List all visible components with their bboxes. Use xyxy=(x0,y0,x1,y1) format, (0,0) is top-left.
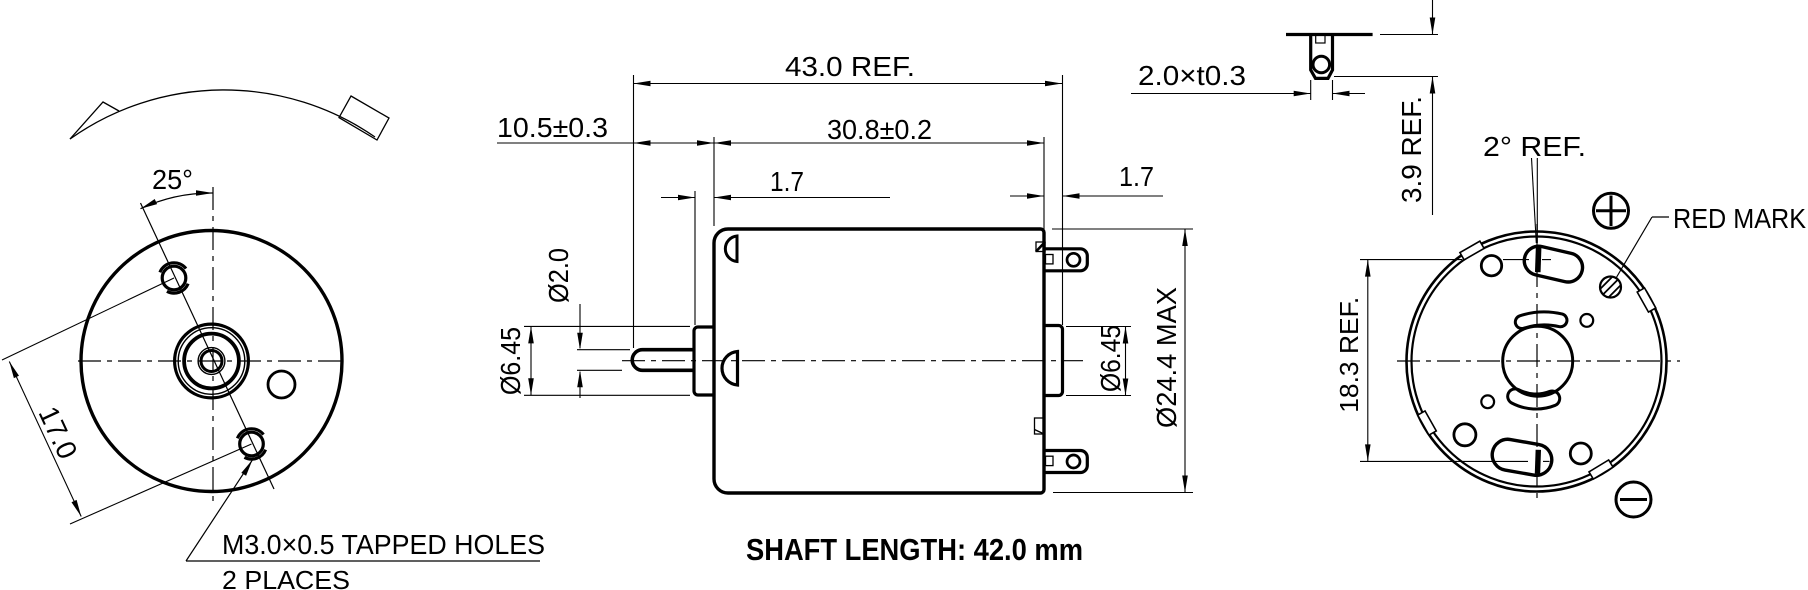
middle view: upper terminal side profile xyxy=(1044,249,1088,271)
right view: lower terminal bar xyxy=(1535,450,1541,474)
right view: red mark hatched circle xyxy=(1600,277,1621,298)
dim dia6.45 right arrows xyxy=(1123,327,1129,344)
dim dia2.0 dimension line xyxy=(579,304,581,348)
left view: 25deg dim arrow right xyxy=(196,190,213,196)
left view: M3 tapped hole (lower) xyxy=(240,432,264,456)
dim dia6.45 left arrows xyxy=(528,326,534,343)
svg-text:Ø6.45: Ø6.45 xyxy=(495,327,526,395)
detail view: end cap surface line xyxy=(1286,33,1373,36)
left view: 17.0 extension line lower xyxy=(70,444,252,524)
svg-text:SHAFT LENGTH: 42.0 mm: SHAFT LENGTH: 42.0 mm xyxy=(746,532,1083,567)
middle view: shaft xyxy=(632,350,694,371)
svg-text:43.0 REF.: 43.0 REF. xyxy=(785,51,915,82)
right view: rim tab right xyxy=(1637,288,1656,312)
right view: small hole e xyxy=(1570,443,1591,464)
svg-text:Ø2.0: Ø2.0 xyxy=(543,248,574,303)
svg-text:1.7: 1.7 xyxy=(1119,161,1154,192)
right view: small hole b xyxy=(1580,314,1593,327)
left view: small plain hole xyxy=(268,371,295,398)
dim 30.8 arrows xyxy=(714,140,731,146)
dim 43.0 REF extension line right xyxy=(1062,75,1064,325)
middle view: motor body outline xyxy=(714,229,1044,493)
left view: hub boss thick circle xyxy=(184,334,239,389)
left view: 17.0 dimension line xyxy=(9,362,81,517)
middle view: upper crimp tab on right edge xyxy=(1036,242,1045,252)
right view: upper vent slot xyxy=(1515,312,1567,329)
svg-text:2.0×t0.3: 2.0×t0.3 xyxy=(1138,60,1246,91)
dim 3.9 REF extension lines xyxy=(1380,34,1438,36)
right view: horizontal centerline xyxy=(1397,360,1680,362)
svg-text:RED MARK: RED MARK xyxy=(1673,203,1806,234)
dim 1.7 left extension line xyxy=(694,191,696,325)
right view: outer rim circle xyxy=(1407,232,1667,492)
right view: rim tab lower-right xyxy=(1589,460,1613,479)
left view: bearing thin circle xyxy=(198,348,225,375)
left view: M3 tapped hole (upper) xyxy=(162,266,186,290)
dim 18.3 REF arrows xyxy=(1365,260,1371,277)
right view: rim tab upper-left xyxy=(1460,241,1484,260)
svg-text:30.8±0.2: 30.8±0.2 xyxy=(827,114,932,145)
svg-text:2° REF.: 2° REF. xyxy=(1483,131,1586,162)
svg-text:2 PLACES: 2 PLACES xyxy=(222,565,350,590)
left view: 17.0 extension line upper xyxy=(2,278,174,360)
right view: minus polarity symbol xyxy=(1616,482,1651,517)
dim 30.8 extension line left xyxy=(713,137,715,226)
dim dia6.45 left extension lines xyxy=(524,325,690,327)
dim 43.0 REF extension line left xyxy=(633,75,635,348)
dim 1.7 left arrows xyxy=(678,195,695,201)
dim dia24.4 MAX dimension line xyxy=(1184,229,1186,493)
dim 30.8 extension line right xyxy=(1043,137,1045,244)
dim dia24.4 MAX extension lines xyxy=(1052,228,1193,230)
left view: rotation arc open arrowhead xyxy=(70,102,119,139)
right view: upper terminal bar xyxy=(1535,247,1541,272)
dim 2.0xt0.3 leader/dim line xyxy=(1131,93,1311,95)
left view: tapped holes leader arrow xyxy=(241,460,252,476)
dim dia2.0 arrows xyxy=(577,333,583,350)
middle view: horizontal centerline xyxy=(622,360,1083,362)
svg-text:M3.0×0.5 TAPPED HOLES: M3.0×0.5 TAPPED HOLES xyxy=(222,529,545,560)
dim 2.0xt0.3 arrows xyxy=(1294,91,1311,97)
left view: hub flange outer circle xyxy=(175,324,249,398)
dim 1.7 left dimension lines xyxy=(661,197,695,199)
right view: vertical centerline xyxy=(1536,224,1538,502)
svg-text:10.5±0.3: 10.5±0.3 xyxy=(497,112,608,143)
right view: lower brush window xyxy=(1490,437,1554,478)
right view: small hole d xyxy=(1454,424,1476,446)
left view: 25deg dimension arc xyxy=(141,193,214,209)
dim 1.7 right arrows xyxy=(1027,193,1044,199)
right view: lower vent slot xyxy=(1508,389,1560,409)
dim 3.9 REF dimension line xyxy=(1432,0,1434,35)
right view: rim tab left xyxy=(1418,411,1437,435)
dim 43.0 REF dimension line xyxy=(634,83,1063,85)
dim 10.5/30.8 dimension line xyxy=(497,142,1044,144)
detail view: terminal hole xyxy=(1313,56,1330,73)
dim 1.7 right dimension lines xyxy=(1010,195,1044,197)
dim dia24.4 MAX arrows xyxy=(1182,229,1188,246)
right view: center bearing hole xyxy=(1503,326,1573,396)
dim dia2.0 extension lines xyxy=(577,349,630,351)
dim dia6.45 right dimension line xyxy=(1125,327,1127,396)
middle view: lower terminal side profile xyxy=(1044,451,1088,473)
detail view: terminal notch xyxy=(1316,35,1325,43)
svg-text:Ø24.4 MAX: Ø24.4 MAX xyxy=(1151,287,1182,428)
middle view: front bushing xyxy=(694,327,714,395)
right view: red mark leader xyxy=(1652,216,1669,218)
left view: hub flange inner thin circle xyxy=(178,328,245,395)
left view: horizontal centerline xyxy=(78,360,347,362)
svg-text:1.7: 1.7 xyxy=(770,166,804,197)
svg-text:3.9 REF.: 3.9 REF. xyxy=(1396,96,1427,203)
middle view: lower crimp tab on right edge xyxy=(1035,418,1045,434)
left view: rotation direction arc xyxy=(70,90,375,139)
dim 2deg REF leader lines xyxy=(1536,158,1538,243)
dim dia6.45 right extension lines xyxy=(1066,326,1131,328)
middle view: middle crimp half-moon xyxy=(722,352,738,386)
left view: vertical centerline xyxy=(212,187,214,503)
left view: 25deg diagonal axis line through tapped holes xyxy=(141,203,275,489)
right view: plus polarity symbol xyxy=(1594,193,1629,228)
svg-text:18.3 REF.: 18.3 REF. xyxy=(1334,297,1364,413)
detail view: terminal front profile xyxy=(1311,35,1333,79)
left view: rotation arc end flag rectangle xyxy=(339,96,389,140)
left view: 17.0 arrow upper xyxy=(9,362,19,379)
right view: small hole c xyxy=(1481,395,1494,408)
dim 18.3 REF extension lines xyxy=(1360,259,1462,261)
right view: small hole a xyxy=(1481,256,1501,276)
right view: upper brush window xyxy=(1521,243,1585,285)
middle view: upper crimp half-moon xyxy=(725,236,737,262)
right view: inner rim circle xyxy=(1412,237,1662,487)
dim 2.0xt0.3 extension lines xyxy=(1310,80,1312,100)
dim 43.0 REF arrows xyxy=(634,81,651,87)
dim 18.3 REF dimension line xyxy=(1367,260,1369,462)
left view: motor front face outer circle xyxy=(81,231,342,492)
svg-text:Ø6.45: Ø6.45 xyxy=(1095,325,1126,392)
svg-text:25°: 25° xyxy=(152,164,193,195)
dim 10.5 arrows xyxy=(634,140,651,146)
left view: 17.0 arrow lower xyxy=(72,500,82,517)
dim dia6.45 left dimension line xyxy=(530,326,532,395)
dim 3.9 REF arrows xyxy=(1430,18,1436,35)
left view: 25deg dim arrow left xyxy=(141,199,158,209)
left view: tapped holes leader line xyxy=(186,460,253,561)
left view: shaft bore circle xyxy=(201,351,222,372)
middle view: rear bearing boss xyxy=(1044,326,1063,396)
